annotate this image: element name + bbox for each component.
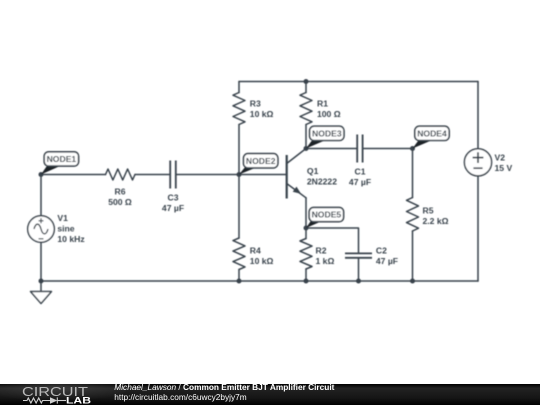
- voltage source V1: [28, 216, 55, 243]
- transistor Q1: [287, 149, 306, 199]
- label R1 value: [317, 99, 341, 120]
- svg-text:10 kHz: 10 kHz: [57, 234, 84, 244]
- junction top rail R1: [304, 79, 309, 84]
- junction R5 bottom: [410, 279, 415, 284]
- label R4 value: [250, 246, 274, 267]
- wire NODE1 to V1: [40, 175, 42, 216]
- junction NODE3: [304, 146, 309, 151]
- svg-text:C1: C1: [355, 167, 366, 177]
- node NODE1 flag: [41, 152, 79, 175]
- label C1 value: [349, 167, 371, 188]
- capacitor C3: [170, 161, 176, 189]
- wire NODE1 to R6: [41, 174, 106, 176]
- junction ground: [39, 279, 44, 284]
- junction NODE5: [304, 226, 309, 231]
- svg-text:V2: V2: [495, 153, 506, 163]
- footer logo diode: [50, 397, 57, 404]
- svg-text:10 kΩ: 10 kΩ: [250, 256, 274, 266]
- node NODE2 flag: [239, 154, 278, 175]
- svg-text:C3: C3: [168, 193, 179, 203]
- junction NODE1: [39, 172, 44, 177]
- label R5 value: [423, 206, 449, 227]
- junction C2 bottom: [356, 279, 361, 284]
- svg-text:47 µF: 47 µF: [376, 256, 398, 266]
- capacitor C2: [345, 253, 372, 257]
- svg-text:Q1: Q1: [307, 166, 319, 176]
- svg-text:NODE2: NODE2: [246, 156, 276, 166]
- node NODE4 flag: [413, 126, 450, 148]
- svg-text:sine: sine: [57, 224, 74, 234]
- wire C1 to NODE4: [364, 148, 413, 150]
- wire emitter to NODE5: [305, 198, 307, 228]
- junction R4 bottom: [237, 279, 242, 284]
- svg-text:Michael_Lawson / Common Emitte: Michael_Lawson / Common Emitter BJT Ampl…: [114, 382, 334, 392]
- junction NODE4: [410, 146, 415, 151]
- svg-text:C2: C2: [376, 246, 387, 256]
- svg-text:47 µF: 47 µF: [349, 177, 371, 187]
- node NODE5 flag: [306, 207, 344, 228]
- svg-text:100 Ω: 100 Ω: [317, 109, 341, 119]
- svg-text:47 µF: 47 µF: [162, 203, 184, 213]
- svg-text:NODE5: NODE5: [312, 210, 342, 220]
- label R2 value: [316, 246, 335, 267]
- svg-text:2N2222: 2N2222: [307, 177, 337, 187]
- label C2 value: [376, 246, 398, 267]
- resistor R1: [300, 82, 312, 149]
- svg-text:http://circuitlab.com/c6uwcy2b: http://circuitlab.com/c6uwcy2byjy7m: [114, 392, 246, 402]
- wire collector to C1: [306, 148, 356, 150]
- wire bottom rail: [41, 280, 478, 282]
- svg-text:15 V: 15 V: [495, 163, 513, 173]
- svg-text:V1: V1: [57, 213, 68, 223]
- label V1 value: [57, 213, 84, 244]
- capacitor C1: [357, 135, 362, 163]
- svg-text:R4: R4: [250, 246, 261, 256]
- ground: [31, 292, 52, 304]
- resistor R5: [407, 149, 419, 282]
- wire V2 top lead: [477, 82, 479, 149]
- svg-text:R2: R2: [316, 246, 327, 256]
- label R6 value: [108, 187, 132, 208]
- footer logo glow: [0, 377, 127, 401]
- wire C2 to bottom rail: [358, 259, 360, 281]
- svg-text:10 kΩ: 10 kΩ: [250, 109, 274, 119]
- svg-text:500 Ω: 500 Ω: [108, 197, 132, 207]
- footer bar: [0, 384, 540, 405]
- wire ground stub: [40, 281, 42, 292]
- junction R2 bottom: [304, 279, 309, 284]
- svg-text:R3: R3: [250, 99, 261, 109]
- wire NODE5 to C2: [306, 228, 359, 253]
- footer logo schematic squiggle: [23, 397, 66, 403]
- wire C3 to NODE2: [177, 174, 239, 176]
- svg-text:R6: R6: [115, 187, 126, 197]
- resistor R4: [233, 175, 245, 282]
- label C3 value: [162, 193, 184, 214]
- label R3 value: [250, 99, 274, 120]
- node NODE3 flag: [306, 126, 344, 148]
- svg-text:NODE4: NODE4: [417, 129, 447, 139]
- wire NODE2 to base: [239, 174, 287, 176]
- svg-text:R1: R1: [317, 99, 328, 109]
- label V2 value: [495, 153, 513, 174]
- svg-text:NODE1: NODE1: [47, 154, 77, 164]
- svg-text:R5: R5: [423, 206, 434, 216]
- wire V1 to ground rail: [40, 242, 42, 281]
- voltage source V2: [464, 149, 491, 176]
- wire R6 to C3: [135, 174, 169, 176]
- svg-text:1 kΩ: 1 kΩ: [316, 256, 335, 266]
- resistor R3: [233, 82, 245, 175]
- label Q1 value: [307, 166, 337, 187]
- svg-text:2.2 kΩ: 2.2 kΩ: [423, 216, 449, 226]
- wire top rail: [239, 81, 478, 83]
- svg-text:LAB: LAB: [66, 396, 91, 405]
- svg-text:NODE3: NODE3: [312, 129, 342, 139]
- junction NODE2: [237, 172, 242, 177]
- resistor R2: [300, 228, 312, 281]
- wire V2 bottom lead: [477, 176, 479, 281]
- resistor R6: [106, 169, 136, 180]
